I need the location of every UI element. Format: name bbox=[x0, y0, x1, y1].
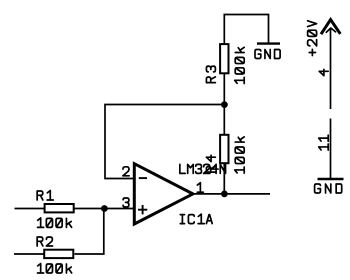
resistor R1 body bbox=[45, 204, 74, 212]
ground symbol top bar bbox=[257, 42, 280, 44]
op-amp pin 2 number bbox=[123, 167, 129, 176]
op-amp name IC1A bbox=[180, 214, 212, 224]
resistor R3 body bbox=[220, 44, 228, 73]
op-amp pin 1 number bbox=[197, 183, 203, 193]
resistor R2 value bbox=[38, 263, 72, 273]
resistor R2 name bbox=[37, 237, 52, 246]
wire R4 bottom to node C bbox=[223, 164, 225, 194]
ground symbol right bar bbox=[318, 178, 344, 180]
resistor R4 name bbox=[206, 155, 215, 172]
op-amp plus input sign bbox=[138, 205, 147, 214]
wire R2 right up to node A bbox=[75, 209, 104, 255]
resistor R1 value bbox=[38, 218, 72, 228]
wire R3 top to GND symbol bbox=[224, 15, 268, 44]
op-amp IC1A triangle bbox=[134, 164, 193, 224]
resistor R4 body bbox=[220, 135, 228, 163]
resistor R4 value bbox=[235, 137, 245, 173]
wire R1 right to op-amp pin 3 bbox=[75, 208, 136, 210]
ground label right bbox=[315, 184, 342, 193]
+20V supply arrow inner notch bbox=[326, 28, 335, 32]
resistor R3 name bbox=[206, 66, 215, 83]
+20V supply arrow outer chevron bbox=[322, 20, 340, 33]
node C junction bbox=[221, 191, 228, 198]
node B junction bbox=[221, 101, 228, 108]
op-amp value LM324N bbox=[180, 164, 226, 173]
wire feedback: node B left, down to op-amp pin 2 bbox=[105, 105, 224, 179]
op-amp pin 3 number bbox=[123, 198, 129, 207]
resistor R1 name bbox=[37, 190, 53, 200]
wire R1 left input bbox=[15, 208, 45, 210]
resistor R3 value bbox=[235, 47, 245, 83]
resistor R2 body bbox=[44, 250, 73, 258]
op-amp minus input sign bbox=[139, 177, 147, 179]
wire R3 bottom through node B to R4 top bbox=[223, 74, 225, 134]
pin 11 line bbox=[330, 119, 332, 179]
ground label top bbox=[255, 50, 280, 59]
pin 4 number bbox=[319, 69, 328, 75]
+20V supply label bbox=[308, 21, 317, 56]
node A junction bbox=[101, 205, 108, 212]
pin 11 number bbox=[319, 135, 329, 150]
wire op-amp output pin 1 bbox=[193, 193, 270, 195]
wire R2 left input bbox=[14, 253, 44, 255]
pin 4 line bbox=[330, 29, 332, 110]
